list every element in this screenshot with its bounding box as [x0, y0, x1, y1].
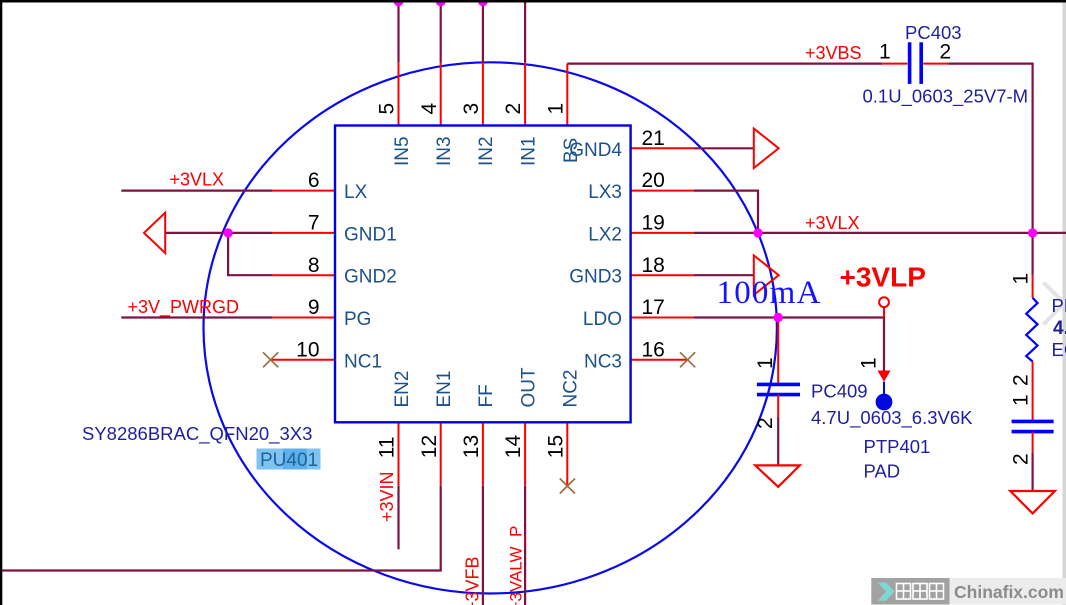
arrow down filled — [877, 371, 890, 382]
svg-text:IN2: IN2 — [476, 136, 497, 166]
pin 21 stub — [631, 147, 694, 149]
svg-text:4.7K: 4.7K — [1053, 318, 1066, 339]
svg-text:GND3: GND3 — [569, 267, 622, 288]
no-connect X pin15 — [560, 479, 575, 494]
junction dot top IN2 — [478, 0, 488, 6]
svg-text:13: 13 — [460, 435, 483, 458]
ground symbol center — [755, 465, 800, 486]
wire GND4 maroon — [694, 147, 754, 149]
pin 12 stub — [440, 422, 442, 486]
svg-text:GND2: GND2 — [344, 267, 397, 288]
junction dot top IN5 — [394, 0, 404, 6]
no-connect X pin16 — [680, 352, 695, 367]
wire GND3 maroon — [694, 274, 754, 276]
svg-text:20: 20 — [642, 169, 665, 192]
off-page arrow left — [144, 213, 165, 253]
pin 13 stub — [482, 422, 484, 486]
frame left bar — [0, 0, 2, 605]
wire LDO maroon — [694, 316, 884, 318]
terminal circle — [879, 297, 889, 307]
svg-text:+3VBS: +3VBS — [805, 43, 862, 63]
wire red below cap — [1032, 432, 1034, 453]
wire red at PC403 pin2 — [923, 63, 948, 65]
wire below cap red — [777, 395, 779, 417]
svg-text:21: 21 — [642, 127, 665, 150]
svg-text:LX: LX — [344, 182, 368, 203]
pin 18 stub — [631, 274, 694, 276]
wire red at PC403 pin1 — [882, 63, 907, 65]
junction dot GND1 — [223, 228, 232, 237]
svg-text:IN1: IN1 — [518, 136, 539, 166]
ground symbol right — [1010, 491, 1055, 513]
pin 8 stub — [272, 274, 335, 276]
svg-text:5: 5 — [376, 103, 399, 115]
wire below cap maroon — [777, 417, 779, 465]
off-page arrow right GND4 — [754, 129, 779, 169]
svg-text:PC409: PC409 — [811, 381, 868, 402]
wire short red — [883, 382, 885, 396]
svg-text:PTP401: PTP401 — [864, 436, 931, 457]
capacitor PC403 — [910, 42, 922, 84]
pin 1 BS stub — [566, 64, 568, 126]
svg-text:1: 1 — [1010, 273, 1033, 285]
svg-text:8: 8 — [308, 254, 320, 277]
svg-text:+3VALW_P: +3VALW_P — [507, 526, 526, 605]
svg-text:18: 18 — [642, 254, 665, 277]
svg-text:+3VIN: +3VIN — [377, 471, 397, 522]
svg-text:PAD: PAD — [864, 461, 901, 482]
wire LDO cap branch red — [777, 318, 779, 385]
junction dot LDO — [774, 313, 783, 322]
svg-text:IN3: IN3 — [434, 136, 455, 166]
pin 19 stub — [631, 232, 694, 234]
svg-text:PU401: PU401 — [260, 450, 318, 471]
pin 20 stub — [631, 190, 694, 192]
wire LX3 maroon — [694, 191, 758, 233]
svg-text:LX2: LX2 — [588, 224, 622, 245]
svg-text:+3VLX: +3VLX — [170, 170, 225, 190]
wire GND1 maroon — [165, 232, 272, 234]
svg-text:NC1: NC1 — [344, 351, 382, 372]
svg-text:1: 1 — [858, 357, 881, 369]
pin 2 stub — [524, 62, 526, 125]
svg-text:EN2: EN2 — [392, 371, 413, 408]
pin 10 stub — [271, 359, 335, 361]
svg-text:IN5: IN5 — [392, 136, 413, 166]
svg-text:+3VLP: +3VLP — [840, 262, 926, 293]
pin 6 stub — [272, 190, 335, 192]
faint watermark chevron near resistor — [1044, 283, 1065, 325]
capacitor under LDO — [757, 384, 800, 394]
right edge gray strip — [1063, 0, 1066, 605]
wire red above resistor — [1032, 275, 1034, 298]
svg-text:SY8286BRAC_QFN20_3X3: SY8286BRAC_QFN20_3X3 — [82, 423, 312, 445]
wire IN5 top maroon — [397, 0, 399, 62]
svg-text:NC3: NC3 — [584, 351, 622, 372]
svg-text:2: 2 — [754, 417, 777, 429]
pad PTP401 blue dot — [876, 394, 893, 411]
svg-text:LX3: LX3 — [588, 182, 622, 203]
svg-text:LDO: LDO — [583, 309, 622, 330]
junction dot +3VLX right — [1028, 228, 1037, 237]
svg-text:PC403: PC403 — [905, 22, 962, 43]
frame top bar — [0, 0, 1066, 3]
svg-text:NC2: NC2 — [561, 369, 582, 407]
svg-text:4: 4 — [418, 103, 441, 115]
svg-text:EN1: EN1 — [434, 371, 455, 408]
svg-text:2: 2 — [1010, 453, 1033, 465]
svg-text:2: 2 — [1010, 374, 1033, 386]
pin 7 stub — [272, 232, 335, 234]
svg-text:2: 2 — [940, 41, 952, 64]
wire red below resistor — [1032, 362, 1034, 422]
svg-text:PG: PG — [344, 309, 371, 330]
pin 3 stub — [482, 62, 484, 125]
svg-text:1: 1 — [1010, 394, 1033, 406]
svg-text:9: 9 — [308, 296, 320, 319]
svg-text:1: 1 — [879, 41, 891, 64]
junction dot top IN3 — [436, 0, 446, 6]
wire GND2 branch — [228, 233, 272, 275]
wire +3VBS horizontal — [567, 62, 882, 64]
off-page arrow right GND3 — [754, 255, 779, 295]
svg-text:GND1: GND1 — [344, 224, 397, 245]
wire +3VLX right — [694, 232, 1066, 234]
junction dot LX2 — [753, 228, 762, 237]
svg-text:Chinafix.com: Chinafix.com — [954, 582, 1064, 602]
wire EN2 maroon — [397, 486, 399, 550]
svg-text:17: 17 — [642, 296, 665, 319]
svg-text:16: 16 — [642, 338, 665, 361]
wire +3VALW_P maroon — [524, 486, 526, 605]
pin 16 stub — [631, 359, 688, 361]
svg-text:0.1U_0603_25V7-M: 0.1U_0603_25V7-M — [863, 86, 1029, 108]
pin 9 stub — [272, 317, 335, 319]
wire EN1 maroon — [0, 486, 441, 571]
resistor branch wire red top — [1031, 233, 1033, 245]
wire +3VFB maroon — [482, 486, 484, 605]
circle highlight around regulator — [204, 62, 777, 593]
resistor PR zigzag — [1026, 298, 1037, 362]
svg-text:OUT: OUT — [518, 367, 539, 408]
wire +3V_PWRGD — [121, 316, 272, 318]
wire maroon to ground — [1031, 453, 1033, 491]
svg-text:2: 2 — [502, 103, 525, 115]
pin 11 stub — [398, 422, 400, 486]
svg-text:14: 14 — [502, 435, 525, 459]
watermark bar — [871, 578, 1066, 605]
wire maroon to right corner — [948, 64, 1032, 233]
svg-text:7: 7 — [308, 212, 320, 235]
wire IN2 top maroon — [482, 0, 484, 62]
svg-text:100mA: 100mA — [717, 275, 822, 311]
pin 15 stub — [566, 422, 568, 485]
svg-text:1: 1 — [544, 103, 567, 115]
wire +3VLX left — [121, 190, 272, 192]
svg-text:+3VLX: +3VLX — [805, 213, 860, 233]
no-connect X pin10 — [263, 352, 278, 367]
op-amp U1 chip body PU401 — [335, 126, 631, 423]
svg-text:12: 12 — [418, 435, 441, 458]
svg-text:6: 6 — [308, 169, 320, 192]
svg-text:PR409: PR409 — [1052, 295, 1066, 316]
pin 5 stub — [398, 62, 400, 125]
svg-text:+3VFB: +3VFB — [463, 556, 483, 605]
wire IN1 top maroon — [524, 0, 526, 62]
PU401 highlight — [257, 449, 321, 470]
svg-text:10: 10 — [296, 338, 319, 361]
svg-text:1: 1 — [754, 357, 777, 369]
pin 17 stub — [631, 317, 694, 319]
pin 14 stub — [524, 422, 526, 486]
svg-text:3: 3 — [460, 103, 483, 115]
svg-text:11: 11 — [376, 436, 399, 458]
svg-text:EC: EC — [1052, 339, 1066, 360]
svg-text:15: 15 — [544, 435, 567, 458]
pin 4 stub — [440, 62, 442, 125]
wire IN3 top maroon — [440, 0, 442, 62]
svg-text:FF: FF — [476, 384, 497, 407]
svg-text:GND4: GND4 — [569, 140, 622, 161]
capacitor right column — [1012, 421, 1054, 431]
wire +3VLP down maroon — [883, 307, 885, 317]
svg-text:+3V_PWRGD: +3V_PWRGD — [128, 297, 240, 318]
svg-text:19: 19 — [642, 212, 665, 235]
svg-text:4.7U_0603_6.3V6K: 4.7U_0603_6.3V6K — [811, 407, 973, 429]
